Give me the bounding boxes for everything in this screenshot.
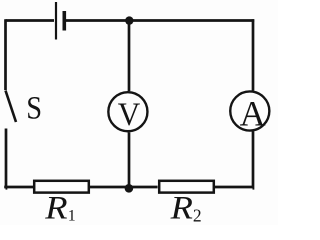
- svg-text:1: 1: [68, 208, 76, 225]
- wire left vertical upper: [4, 19, 7, 90]
- wire top-left segment: [6, 19, 55, 22]
- voltmeter V: [108, 92, 147, 133]
- svg-text:R: R: [44, 190, 67, 225]
- wire left vertical lower: [4, 129, 7, 189]
- resistor R1: [34, 181, 89, 227]
- wire bottom segment 4: [215, 186, 253, 189]
- wire right vertical lower: [251, 131, 254, 188]
- wire middle vertical upper: [128, 21, 131, 92]
- wire bottom segment 1: [4, 186, 33, 189]
- node junction dot bottom: [125, 184, 134, 193]
- svg-text:V: V: [118, 97, 141, 133]
- battery B1: [56, 2, 64, 40]
- switch S: [6, 90, 43, 126]
- node junction dot top: [125, 16, 133, 24]
- svg-text:R: R: [170, 190, 193, 225]
- wire bottom segment 3: [129, 186, 158, 189]
- resistor R2: [159, 181, 214, 227]
- wire bottom segment 2: [90, 186, 129, 189]
- ammeter A: [230, 91, 269, 133]
- svg-text:A: A: [240, 94, 266, 134]
- wire right vertical upper: [252, 19, 255, 90]
- svg-text:2: 2: [193, 206, 202, 225]
- wire middle vertical lower: [128, 132, 131, 187]
- wire top-right segment: [66, 19, 254, 22]
- svg-text:S: S: [26, 90, 42, 126]
